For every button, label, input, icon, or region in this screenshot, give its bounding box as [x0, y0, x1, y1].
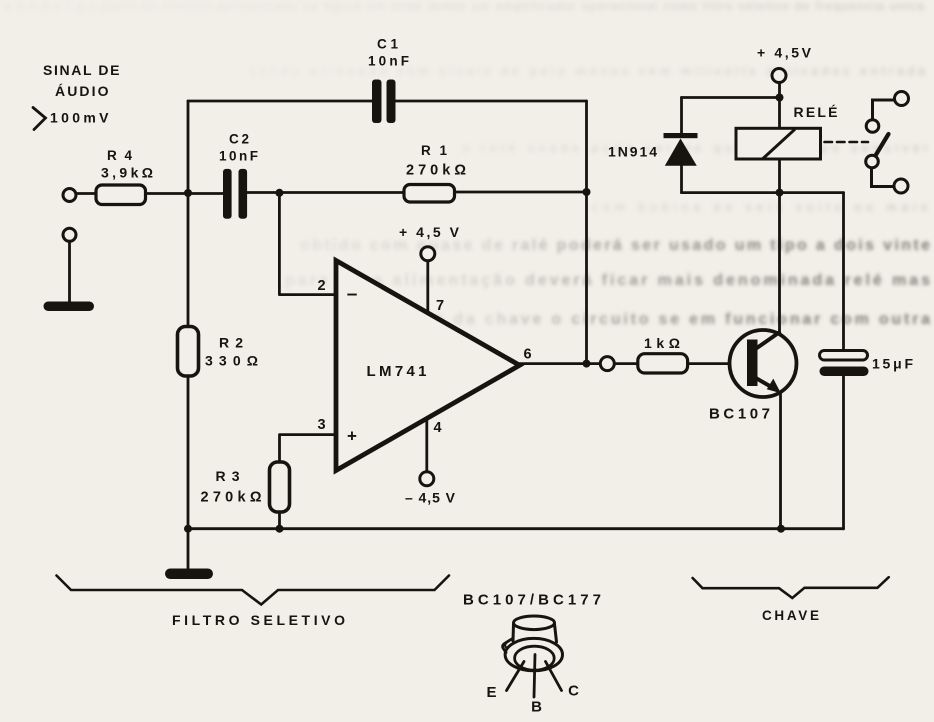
resistor 1k	[638, 354, 688, 373]
dashed actuator link	[825, 141, 869, 144]
svg-text:100mV: 100mV	[50, 110, 110, 126]
ground input	[44, 302, 95, 312]
lead E	[507, 662, 525, 691]
flange	[505, 638, 562, 670]
wire: pin 3 link and R3 leads	[280, 435, 337, 529]
resistor R3	[270, 462, 290, 512]
svg-text:10nF: 10nF	[219, 149, 258, 164]
svg-text:3: 3	[317, 417, 325, 433]
node: C2/pin2 junction	[275, 189, 283, 197]
wire: inverting input from node down to pin 2	[279, 193, 336, 295]
wire: +4,5V rail to diode branch	[682, 83, 780, 129]
tab	[503, 639, 513, 653]
wire: pin 4 supply stub	[425, 419, 428, 472]
svg-text:+: +	[347, 427, 357, 446]
terminal +4,5V rail	[772, 69, 786, 83]
capacitor C1	[372, 80, 382, 124]
node: relay bottom junction	[776, 189, 784, 197]
switch terminal bottom right	[894, 179, 908, 193]
wire: pin 7 supply stub	[426, 261, 429, 314]
svg-text:SINAL DE: SINAL DE	[43, 62, 121, 78]
wire: relay bottom run to cap branch	[682, 191, 844, 194]
svg-text:LM741: LM741	[367, 363, 427, 380]
switch contact upper	[866, 120, 879, 133]
svg-text:obtido com quase de ralé poder: obtido com quase de ralé poderá ser usad…	[300, 237, 930, 254]
terminal: output node circle	[600, 357, 614, 371]
svg-text:– 4,5 V: – 4,5 V	[405, 490, 456, 506]
node: R1/right vertical junction	[583, 188, 591, 196]
lead labels E B C	[486, 683, 579, 716]
switch blade	[876, 134, 889, 156]
wire: main left vertical bus	[187, 101, 190, 529]
label: signal source	[43, 62, 121, 126]
lead C	[546, 662, 562, 691]
transistor package BC107/BC177	[463, 592, 601, 698]
svg-text:4: 4	[433, 420, 441, 436]
transistor Q1 BC107	[709, 330, 797, 423]
diode D1 1N914	[608, 133, 698, 166]
relay K1	[736, 104, 838, 159]
wire: bottom ground bus	[188, 527, 844, 530]
greater-than chevron for >100mV	[33, 108, 46, 130]
brace: filtro seletivo	[57, 576, 450, 605]
switch contacts	[825, 100, 895, 187]
svg-text:C: C	[568, 683, 579, 700]
wire: ground stub bottom	[187, 529, 190, 569]
wire: top feedback run through C1	[188, 100, 587, 103]
can body	[513, 624, 557, 642]
op-amp U1 LM741	[336, 261, 520, 471]
wire: diode branch vertical	[680, 98, 683, 193]
svg-text:7: 7	[436, 298, 444, 314]
svg-text:15μF: 15μF	[872, 356, 913, 372]
capacitor C2	[223, 169, 232, 219]
capacitor 15uF	[820, 351, 914, 377]
wire: emitter down to ground bus	[779, 391, 782, 529]
svg-text:1kΩ: 1kΩ	[644, 335, 680, 351]
wire: input row through R4, C2, R1	[76, 192, 587, 194]
terminal -4,5V pin4	[420, 472, 434, 486]
node: +4,5V rail junction	[776, 94, 784, 102]
terminal: input upper	[63, 189, 76, 202]
svg-text:B: B	[531, 699, 542, 716]
svg-text:2: 2	[317, 278, 325, 294]
node: R3 ground junction	[276, 525, 284, 533]
svg-text:10nF: 10nF	[368, 54, 409, 69]
svg-text:1N914: 1N914	[608, 144, 657, 160]
resistor R4	[96, 185, 146, 205]
wire: 15uF branch vertical	[842, 193, 845, 529]
wire: input lower terminal to ground	[68, 242, 71, 302]
svg-text:a b c d e f g a partir do circ: a b c d e f g a partir do circuito apres…	[4, 0, 924, 13]
node: ground bus left junction	[184, 525, 192, 533]
svg-text:BC107: BC107	[709, 406, 770, 423]
node: emitter ground junction	[777, 525, 785, 533]
switch terminal top right	[895, 92, 909, 106]
svg-text:–: –	[347, 284, 358, 305]
wire: op-amp output to 1k and transistor base	[520, 362, 747, 365]
wire: relay to transistor collector vertical	[778, 159, 781, 334]
svg-text:6: 6	[523, 347, 531, 363]
node: R4/C2 junction	[184, 189, 192, 197]
terminal +4,5V pin7	[421, 247, 435, 261]
svg-text:ÁUDIO: ÁUDIO	[55, 83, 110, 99]
wire: right vertical from C1/R1 down to output node	[585, 101, 588, 364]
resistor R1	[404, 185, 455, 203]
brace: chave	[693, 577, 889, 598]
terminal: input lower	[63, 228, 76, 241]
svg-text:E: E	[486, 684, 496, 701]
svg-text:CHAVE: CHAVE	[762, 608, 819, 623]
node: output junction	[583, 360, 591, 368]
ghost bleed-through text (decorative)	[285, 237, 930, 328]
switch contact pivot	[866, 155, 879, 168]
resistor R2	[178, 327, 199, 377]
ground bottom	[165, 569, 213, 580]
lead B	[534, 655, 535, 698]
svg-text:BC107/BC177: BC107/BC177	[463, 592, 601, 609]
